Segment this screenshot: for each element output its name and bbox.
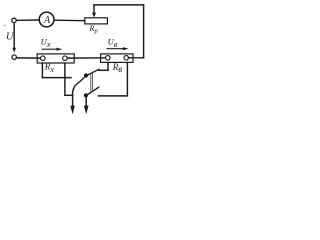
wire Rv left leg to blade S1 (99, 69, 108, 71)
wire Rx to Rv (68, 57, 106, 59)
ammeter A1 (39, 12, 54, 27)
wire wiper to top right (94, 4, 144, 6)
wire right side down (143, 5, 145, 58)
terminal circle Rv left (106, 56, 111, 61)
svg-text:A: A (43, 15, 51, 26)
wire leg to arrow1 shaft (65, 94, 73, 96)
arrow Uv (107, 48, 125, 50)
resistor Rx body (37, 54, 74, 63)
wire T2 to Rx (17, 57, 40, 59)
leg Rv right terminal down (126, 62, 128, 96)
svg-text:U: U (6, 31, 14, 42)
arrow 2 (output lead right) (85, 97, 87, 106)
wire Rv to right corner (129, 57, 144, 59)
wire ammeter to rheostat Rp (54, 19, 85, 22)
pivot dot S2 (84, 93, 88, 97)
wire bar to contact K1 (42, 77, 71, 79)
mechanical linkage of switch (90, 73, 92, 92)
arrow U (downward between terminals) (13, 23, 15, 49)
wire T1 to ammeter (17, 19, 39, 21)
terminal T1 (top left input) (12, 18, 16, 22)
wiper arrow of Rp (93, 5, 95, 14)
terminal circle Rv right (124, 56, 129, 61)
rheostat Rp body (85, 18, 108, 24)
leg Rx left terminal down (41, 63, 43, 78)
speck (scan artifact) (4, 25, 5, 26)
terminal circle Rx left (41, 56, 46, 61)
arrow Ux (42, 48, 59, 50)
switch blade S2 (86, 87, 99, 95)
wire Rv right leg to contact K2 (99, 95, 128, 97)
terminal circle Rx right (63, 56, 68, 61)
switch blade S1 (73, 69, 99, 89)
resistor Rv body (101, 54, 133, 63)
leg Rv left terminal down (107, 62, 109, 70)
leg Rx right terminal down (64, 63, 66, 95)
pivot dot S1 (84, 73, 88, 77)
terminal T2 (bottom left input) (12, 55, 16, 59)
arrow 1 (output lead left) (72, 90, 75, 107)
